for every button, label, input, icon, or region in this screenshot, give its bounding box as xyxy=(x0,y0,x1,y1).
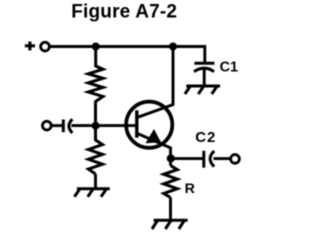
svg-text:C1: C1 xyxy=(220,60,238,76)
svg-text:C2: C2 xyxy=(195,129,216,146)
svg-text:R: R xyxy=(185,181,195,197)
svg-text:Figure A7-2: Figure A7-2 xyxy=(71,1,177,22)
